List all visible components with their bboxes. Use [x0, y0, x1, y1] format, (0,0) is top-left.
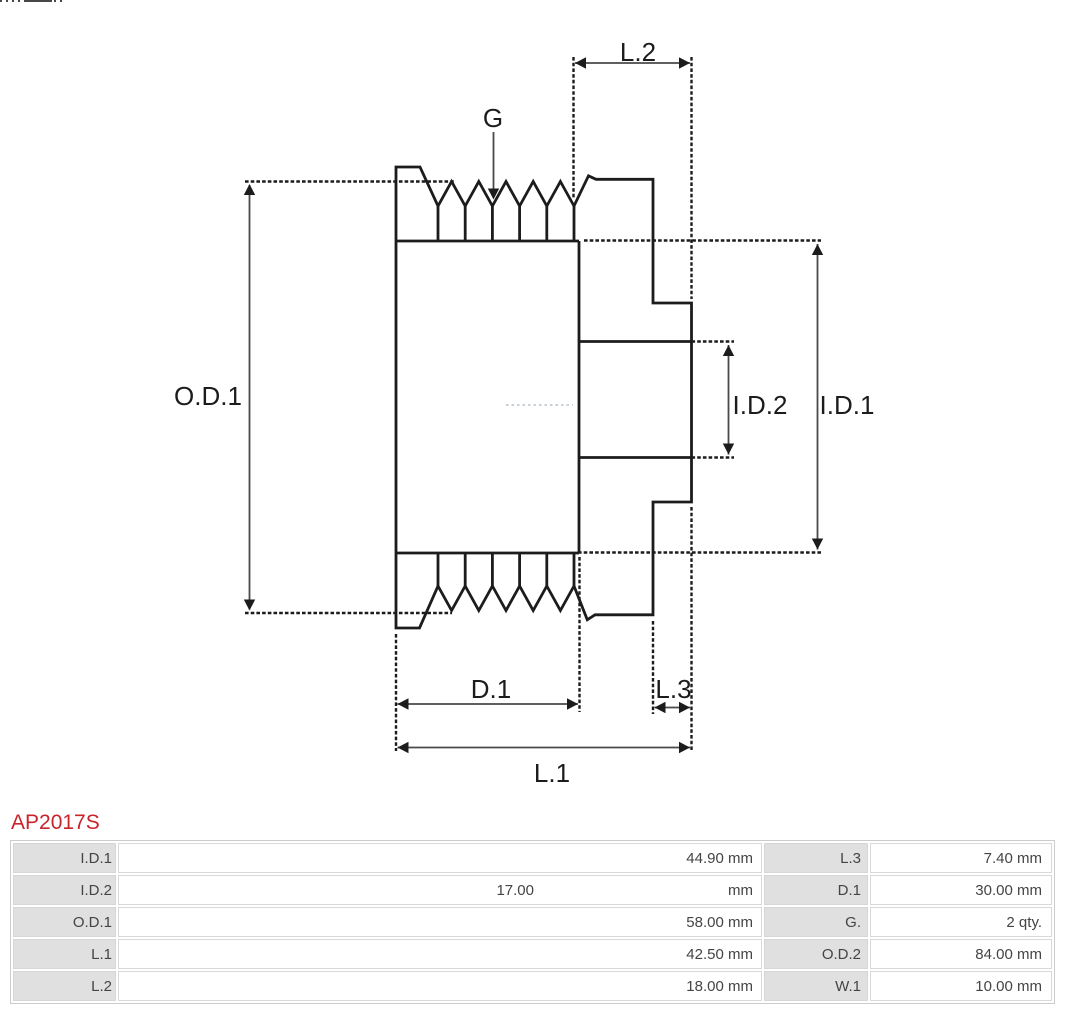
- extension line D.1 left: [395, 634, 397, 751]
- arrowhead L.2 right: [679, 57, 690, 68]
- svg-text:I.D.2: I.D.2: [733, 390, 788, 420]
- arrowhead L.2 left: [575, 57, 586, 68]
- arrowhead I.D.1 down: [812, 539, 823, 550]
- extension line L.3 left: [652, 621, 654, 714]
- bore lines: [579, 342, 692, 458]
- arrowhead O.D.1 up: [244, 184, 255, 195]
- dimension line I.D.2: [728, 345, 730, 455]
- cropped watermark artifact top-left: [0, 0, 64, 2]
- arrowhead D.1 right: [567, 698, 578, 709]
- extension line I.D.1 bottom: [578, 551, 822, 553]
- part number heading: [11, 811, 100, 835]
- arrowhead L.3 right: [679, 702, 690, 713]
- extension line I.D.2 bottom: [692, 456, 735, 458]
- svg-text:I.D.1: I.D.1: [820, 390, 875, 420]
- dimension line L.2: [575, 62, 690, 64]
- specification table: [10, 840, 1055, 1004]
- extension line L.2 right: [690, 57, 692, 299]
- arrowhead I.D.2 down: [723, 444, 734, 455]
- centerline: [506, 404, 573, 406]
- arrowhead O.D.1 down: [244, 600, 255, 611]
- pulley face lines: [396, 241, 579, 553]
- arrowhead L.1 left: [398, 742, 409, 753]
- extension line I.D.2 top: [692, 340, 735, 342]
- pulley outline: [396, 167, 692, 628]
- dimension line L.3: [655, 707, 691, 709]
- arrowhead I.D.1 up: [812, 244, 823, 255]
- extension line D.1 right: [578, 557, 580, 712]
- dimension line O.D.1: [249, 185, 251, 610]
- arrowhead L.3 left: [655, 702, 666, 713]
- svg-text:L.2: L.2: [620, 37, 656, 67]
- arrowhead D.1 left: [398, 698, 409, 709]
- extension line L.2 left: [572, 57, 574, 199]
- dimension line L.1: [398, 747, 691, 749]
- svg-text:L.1: L.1: [534, 758, 570, 788]
- dimension line I.D.1: [817, 244, 819, 550]
- extension line O.D.1 bottom: [245, 612, 452, 614]
- arrowhead I.D.2 up: [723, 345, 734, 356]
- groove stems top: [438, 206, 574, 241]
- svg-text:L.3: L.3: [655, 674, 691, 704]
- groove stems bottom: [438, 553, 574, 586]
- svg-text:G: G: [483, 103, 503, 133]
- extension line L.3 right: [690, 507, 692, 751]
- extension line I.D.1 top: [584, 239, 821, 241]
- extension line O.D.1 top: [245, 180, 454, 182]
- arrowhead L.1 right: [679, 742, 690, 753]
- arrowhead G down: [488, 189, 499, 200]
- svg-text:D.1: D.1: [471, 674, 511, 704]
- leader line G: [493, 132, 495, 189]
- dimension line D.1: [398, 703, 579, 705]
- svg-text:O.D.1: O.D.1: [174, 381, 242, 411]
